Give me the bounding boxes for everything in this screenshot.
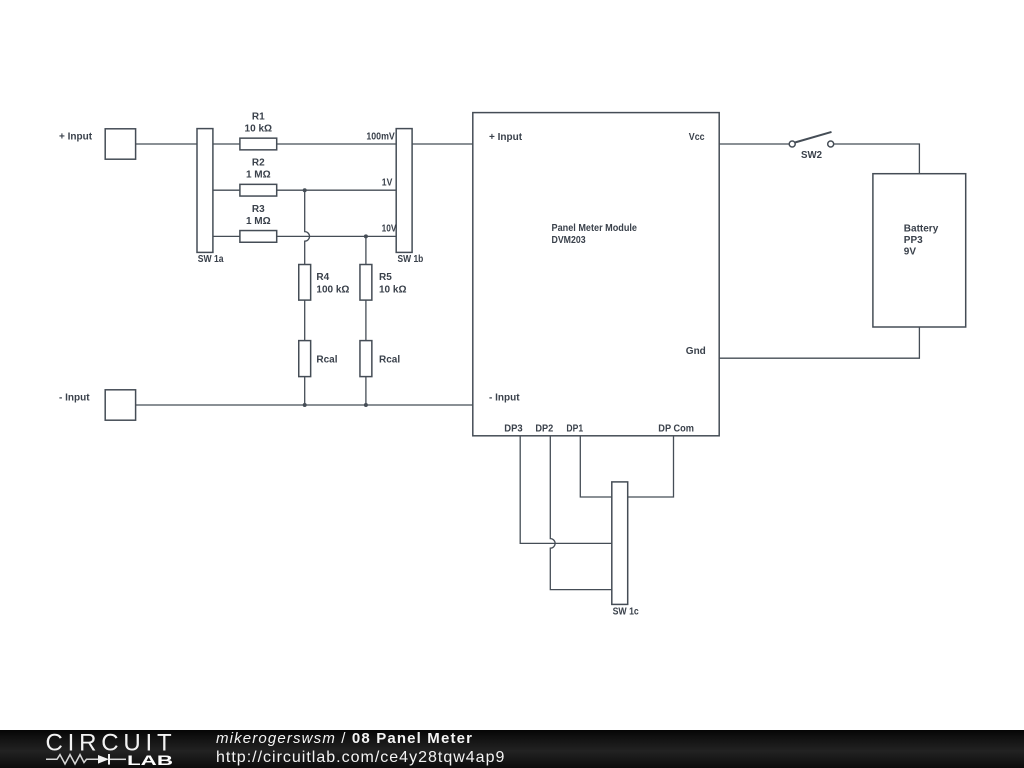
- wire 10V node down to R5: [365, 236, 367, 264]
- resistor R1: [240, 138, 277, 150]
- switch SW1c body: [612, 482, 628, 605]
- svg-text:DP3: DP3: [504, 424, 523, 435]
- resistor R2: [240, 184, 277, 196]
- svg-text:1V: 1V: [382, 177, 393, 188]
- svg-text:PP3: PP3: [904, 235, 923, 246]
- svg-text:9V: 9V: [904, 247, 917, 258]
- svg-text:LAB: LAB: [127, 752, 173, 768]
- wire SW2 to battery top: [834, 144, 920, 174]
- svg-text:1 MΩ: 1 MΩ: [246, 170, 271, 181]
- svg-text:SW 1a: SW 1a: [198, 254, 224, 265]
- junction 10V node: [364, 234, 368, 238]
- svg-text:100 kΩ: 100 kΩ: [316, 284, 349, 295]
- svg-text:R2: R2: [252, 158, 265, 169]
- footer bar: [0, 730, 1024, 768]
- wire SW1a to R3: [213, 235, 240, 237]
- svg-text:- Input: - Input: [489, 393, 520, 404]
- terminal - Input square: [105, 390, 135, 420]
- panel meter module U1 body: [473, 113, 719, 436]
- switch SW1b body: [396, 129, 412, 253]
- resistor R3: [240, 231, 277, 243]
- svg-text:DVM203: DVM203: [552, 235, 586, 246]
- svg-text:10 kΩ: 10 kΩ: [245, 124, 272, 135]
- logo resistor and diode symbol: [46, 755, 98, 764]
- svg-text:Panel Meter Module: Panel Meter Module: [552, 223, 638, 234]
- switch SW2: [789, 132, 834, 147]
- svg-text:Rcal: Rcal: [379, 354, 400, 365]
- svg-text:R5: R5: [379, 272, 392, 283]
- wire SW1b to panel + Input: [412, 143, 473, 145]
- wire SW1a to R2: [213, 189, 240, 191]
- wire R3 to SW1b (10V net): [277, 235, 397, 237]
- wire Rcal right to - Input net: [365, 377, 367, 405]
- svg-text:DP Com: DP Com: [658, 424, 694, 435]
- footer title text: [216, 731, 473, 746]
- svg-text:100mV: 100mV: [366, 132, 395, 143]
- wire DP1: [580, 436, 612, 497]
- svg-text:+ Input: + Input: [59, 132, 93, 143]
- svg-text:Gnd: Gnd: [686, 346, 706, 357]
- junction - Input net right: [364, 403, 368, 407]
- svg-text:Vcc: Vcc: [689, 132, 705, 143]
- wire R4 to Rcal left: [304, 300, 306, 341]
- svg-text:DP2: DP2: [535, 424, 553, 435]
- wire R1 to SW1b (100mV net): [277, 143, 397, 145]
- svg-text:1 MΩ: 1 MΩ: [246, 216, 271, 227]
- wire + Input to SW1a: [136, 143, 197, 145]
- svg-text:SW 1c: SW 1c: [613, 606, 640, 617]
- svg-text:Rcal: Rcal: [316, 354, 337, 365]
- wire SW1a to R1: [213, 143, 240, 145]
- svg-text:- Input: - Input: [59, 392, 90, 403]
- wire R5 to Rcal right: [365, 300, 367, 341]
- svg-text:10V: 10V: [382, 223, 397, 234]
- wire Rcal left to - Input net: [304, 377, 306, 405]
- battery V1 body: [873, 174, 966, 327]
- terminal + Input square: [105, 129, 135, 159]
- wire DP3: [520, 436, 612, 544]
- resistor Rcal left: [299, 341, 311, 377]
- junction - Input net left: [303, 403, 307, 407]
- svg-text:Battery: Battery: [904, 223, 939, 234]
- svg-text:R3: R3: [252, 204, 265, 215]
- switch SW1a body: [197, 129, 213, 253]
- resistor R4: [299, 265, 311, 301]
- svg-text:R1: R1: [252, 111, 265, 122]
- svg-text:10 kΩ: 10 kΩ: [379, 284, 406, 295]
- wire DP2 with hop over DP3 wire: [550, 436, 612, 590]
- resistor R5: [360, 265, 372, 301]
- svg-text:R4: R4: [316, 272, 329, 283]
- svg-text:DP1: DP1: [566, 424, 583, 435]
- wire 1V node down to R4 with hop over 10V wire: [305, 190, 310, 264]
- footer url text: [216, 750, 505, 766]
- wire DP Com: [628, 436, 674, 497]
- wire - Input net: [136, 404, 473, 406]
- resistor Rcal right: [360, 341, 372, 377]
- wire Vcc to SW2: [719, 143, 789, 145]
- svg-text:SW2: SW2: [801, 150, 822, 161]
- junction 1V node: [303, 188, 307, 192]
- wire R2 to SW1b (1V net): [277, 189, 397, 191]
- svg-text:+ Input: + Input: [489, 132, 523, 143]
- wire battery bottom to Gnd pin: [719, 327, 919, 358]
- svg-text:SW 1b: SW 1b: [398, 254, 424, 265]
